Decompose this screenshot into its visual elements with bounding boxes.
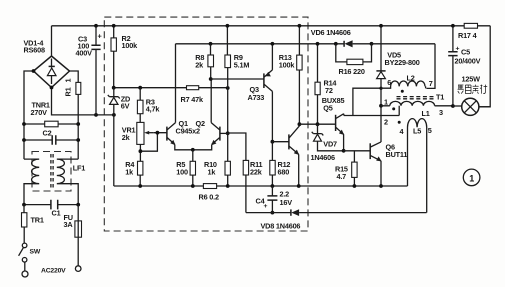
svg-text:A733: A733 — [248, 93, 265, 102]
transformer T1 winding L1 (pins 1-3, tap 2) — [381, 101, 453, 105]
svg-text:R1: R1 — [64, 87, 73, 96]
wire lamp right lead — [479, 106, 490, 108]
svg-text:7: 7 — [429, 79, 433, 88]
transistor Q2 (C945) — [193, 79, 220, 150]
common-mode choke LF1 dashed outline — [32, 152, 71, 192]
svg-text:VD6 1N4606: VD6 1N4606 — [311, 28, 351, 37]
wire bridge right lead — [70, 71, 79, 82]
svg-text:680: 680 — [278, 168, 290, 177]
svg-text:C945x2: C945x2 — [176, 127, 201, 136]
resistor R16 220 (snubber loop) — [336, 44, 372, 65]
svg-text:SW: SW — [30, 249, 41, 256]
transistor Q1 (C945) — [167, 44, 193, 150]
inductor L5 feedback winding (pins 4-5) — [408, 119, 427, 213]
transistor Q3 A733 (PNP) — [264, 44, 273, 142]
resistor R13 100k — [297, 26, 302, 124]
transistor Q4 — [289, 124, 300, 186]
svg-text:+: + — [98, 32, 102, 41]
capacitor C4 2.2/16V — [267, 186, 277, 213]
LF1 left winding — [24, 159, 39, 205]
wire Q6 base lead — [344, 150, 371, 152]
node R8 bottom / Q2 collector / Q3 base — [209, 77, 213, 81]
svg-text:R7 47k: R7 47k — [181, 95, 204, 104]
svg-text:C1: C1 — [52, 209, 61, 218]
svg-text:LF1: LF1 — [73, 164, 86, 173]
potentiometer VR1 2k — [137, 122, 154, 144]
node bridge bottom to DC- wire — [52, 88, 114, 115]
svg-text:+: + — [264, 203, 268, 210]
resistor R8 2k — [208, 44, 214, 79]
svg-text:T1: T1 — [436, 93, 444, 102]
wire R11 top link to Q2 base node — [228, 133, 246, 160]
polarity dot L5 — [398, 121, 401, 124]
resistor R7 47k — [187, 86, 199, 90]
transistor Q6 BUT11 — [370, 142, 381, 186]
svg-text:3A: 3A — [64, 220, 74, 229]
svg-text:4.7: 4.7 — [337, 172, 347, 181]
polarity dot L2 — [401, 90, 404, 93]
wire link to VD5 anode node — [353, 88, 381, 115]
resistor R9 5.1M — [225, 26, 231, 88]
svg-text:100k: 100k — [122, 41, 139, 50]
svg-text:TR1: TR1 — [31, 216, 44, 225]
wire ZD line down to ground rail — [113, 115, 115, 186]
diode VD6 1N4606 (top snubber) — [336, 40, 372, 47]
svg-text:L1: L1 — [422, 109, 430, 118]
diode VD5 BY229-800 — [376, 26, 385, 142]
diode VD8 1N4606 — [291, 209, 299, 216]
node Q3 collector / R12 / Q4 base — [271, 140, 275, 144]
svg-text:1: 1 — [64, 79, 73, 83]
svg-text:1N4606: 1N4606 — [311, 153, 336, 162]
label Chinese lamp name — [458, 85, 488, 94]
svg-text:20/400V: 20/400V — [455, 57, 481, 66]
svg-text:270V: 270V — [31, 108, 48, 117]
svg-text:5: 5 — [428, 126, 432, 135]
transistor Q5 BUX85 — [336, 114, 345, 151]
lamp 125W high pressure mercury lamp — [453, 98, 479, 115]
svg-text:400V: 400V — [76, 49, 93, 58]
terminal left AC input — [22, 271, 28, 277]
wire Q5 collector to T1 tap pin2 — [344, 106, 399, 116]
resistor R10 1k — [225, 161, 230, 186]
svg-text:72: 72 — [325, 86, 333, 95]
wire Q4 base lead — [272, 141, 289, 143]
svg-text:R6 0.2: R6 0.2 — [199, 193, 219, 202]
LF1 right winding — [57, 159, 78, 205]
resistor R15 4.7 — [352, 151, 357, 186]
main dashed control-circuit box — [104, 17, 308, 231]
svg-text:AC220V: AC220V — [41, 268, 66, 275]
svg-text:R17 4: R17 4 — [458, 31, 478, 40]
svg-text:5.1M: 5.1M — [234, 61, 250, 70]
zener diode VD7 1N4606 — [312, 124, 344, 151]
wire Q1 collector rail y43.8 — [176, 43, 336, 45]
svg-text:Q5: Q5 — [323, 104, 332, 113]
svg-text:4,7k: 4,7k — [146, 105, 161, 114]
node Q3 emitter on y43.8 rail — [271, 42, 275, 46]
resistor R2 100k — [111, 26, 116, 88]
T1 core — [397, 96, 434, 98]
resistor R4 1k — [138, 161, 143, 186]
resistor R11 22k — [243, 160, 248, 212]
terminal right AC input — [75, 266, 81, 272]
wire VD8 rail — [246, 212, 427, 214]
node Q5 emitter / VD7 / Q6 base — [342, 149, 346, 153]
svg-text:125W: 125W — [462, 75, 481, 84]
node T1 pin1 junction — [379, 104, 383, 108]
wire right AC rail below R1 — [77, 94, 79, 159]
svg-text:2: 2 — [384, 118, 388, 127]
svg-text:R16 220: R16 220 — [339, 67, 365, 76]
svg-text:C2: C2 — [43, 129, 52, 138]
svg-text:6V: 6V — [121, 102, 130, 111]
wire Q2 base lead — [220, 132, 228, 134]
capacitor C3 100/400V — [91, 26, 100, 115]
svg-text:BY229-800: BY229-800 — [385, 58, 420, 67]
svg-text:1k: 1k — [208, 168, 217, 177]
svg-text:+: + — [456, 46, 460, 53]
svg-text:RS608: RS608 — [24, 46, 45, 55]
wire right edge from R17 down to lamp — [479, 26, 490, 107]
wire R9 line down through Q2 base node to R10 — [227, 88, 229, 161]
thermistor TR1 — [23, 205, 25, 213]
svg-text:L5: L5 — [413, 127, 421, 136]
wire VR1 bottom to R4 — [139, 144, 141, 161]
svg-text:1k: 1k — [125, 168, 134, 177]
wire bridge top lead — [51, 26, 53, 56]
resistor R3 4.7k — [137, 88, 143, 123]
wire base net to Q5 — [299, 123, 335, 125]
svg-text:VD7: VD7 — [323, 140, 337, 149]
figure number circled 1 — [463, 169, 480, 186]
resistor R17 4 (in top rail) — [464, 23, 477, 28]
node joint emitters to R5 — [191, 148, 195, 152]
varistor TNR1 270V — [24, 121, 78, 127]
polarity dot L1 — [392, 107, 395, 110]
svg-text:BUT11: BUT11 — [386, 150, 408, 159]
svg-text:2k: 2k — [195, 61, 204, 70]
svg-text:L2: L2 — [407, 74, 415, 83]
fuse FU 3A — [75, 205, 82, 266]
svg-text:1: 1 — [384, 98, 388, 107]
LF1 core lines — [51, 154, 53, 189]
capacitor C1 — [24, 200, 78, 210]
svg-text:C5: C5 — [461, 48, 470, 57]
wire y43.8 net extension to T1 pin7 riser — [372, 44, 436, 89]
resistor R6 0.2 (in ground rail) — [203, 184, 216, 189]
svg-text:3: 3 — [439, 108, 443, 117]
svg-text:VD8 1N4606: VD8 1N4606 — [261, 222, 301, 231]
svg-text:22k: 22k — [250, 168, 263, 177]
svg-text:100: 100 — [176, 168, 188, 177]
switch SW — [19, 227, 27, 271]
resistor R12 680 — [270, 142, 275, 186]
capacitor C2 — [24, 135, 78, 144]
resistor R5 100 — [190, 150, 195, 186]
svg-text:6: 6 — [387, 78, 391, 87]
zener diode ZD 6V — [108, 88, 120, 115]
capacitor C5 20/400V — [448, 26, 457, 106]
svg-text:1: 1 — [469, 173, 474, 183]
svg-text:2k: 2k — [122, 133, 131, 142]
wire bridge left lead and left AC rail — [24, 71, 34, 159]
resistor R1 — [76, 82, 81, 94]
wire top +310V rail — [52, 25, 491, 27]
wire bias net y88 — [114, 87, 228, 89]
transformer T1 winding L2 (pins 6-7) — [381, 81, 426, 88]
node VR1 wiper junction — [140, 133, 166, 152]
node R13 bottom / Q4 collector — [298, 122, 302, 126]
svg-text:16V: 16V — [280, 198, 293, 207]
resistor R14 72 — [315, 44, 320, 124]
bridge rectifier VD1-4 RS608 — [34, 56, 70, 88]
ground rail of control circuit — [114, 185, 408, 187]
svg-text:100k: 100k — [279, 61, 296, 70]
